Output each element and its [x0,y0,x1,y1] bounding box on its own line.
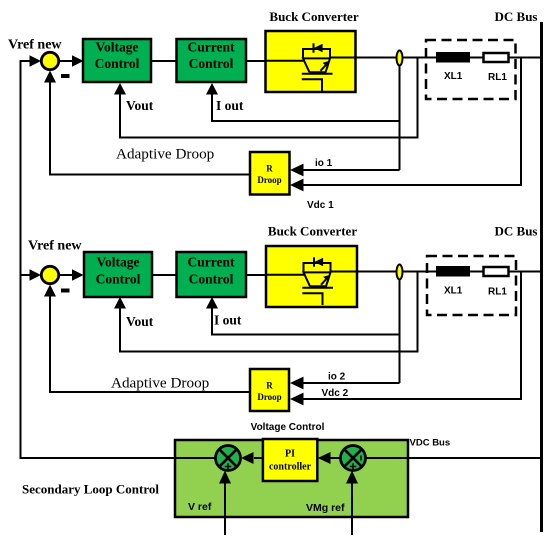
svg-text:Vdc 1: Vdc 1 [307,200,334,211]
summing junction circle 2 [41,266,58,283]
wire Current Control to Buck Converter loop2 [246,274,305,276]
block Voltage Control loop2 [84,252,152,297]
wire io tap from ellipse node down loop1 [399,58,401,170]
dashed line impedance box loop1 [426,40,516,99]
wire I out feedback loop2 [212,308,400,335]
block Buck Converter loop1 [266,31,356,92]
transistor IGBT symbol loop2 [267,257,357,305]
wire V ref arrow into multiplier 1 [224,483,226,535]
wire Buck output line to DC bus loop2 [330,271,541,273]
svg-text:PI: PI [285,449,295,460]
wire arrow into summing junction 2 [20,274,32,276]
svg-text:Secondary Loop Control: Secondary Loop Control [22,482,159,497]
block Current Control loop2 [177,252,247,297]
transistor IGBT symbol loop1 [266,43,356,91]
wire I out feedback loop1 [212,94,400,121]
svg-text:VDC Bus: VDC Bus [410,438,451,449]
block PI controller [263,439,317,481]
svg-text:VMg ref: VMg ref [306,502,345,514]
wire PI controller to multiplier 1 [254,457,263,459]
svg-text:io 2: io 2 [328,372,346,383]
svg-text:Voltage: Voltage [97,255,140,270]
wire Voltage Control to Current Control loop1 [151,60,177,62]
node ellipse junction loop2 [397,265,403,280]
wire summing junction 1 to Voltage Control [59,60,74,62]
svg-text:V ref: V ref [188,501,212,513]
wire Vdc 2 feedback into R Droop [302,272,521,400]
wire Buck output line to DC bus loop1 [330,57,541,59]
svg-text:Current: Current [188,40,235,55]
wire io tap from ellipse node down loop2 [399,272,401,383]
svg-text:I out: I out [216,98,244,113]
wire arrow into summing junction 1 [20,60,32,62]
svg-text:io 1: io 1 [315,158,333,169]
svg-text:DC Bus: DC Bus [495,224,538,239]
svg-text:Current: Current [188,255,235,270]
svg-text:I out: I out [214,313,242,328]
svg-text:Buck Converter: Buck Converter [269,9,358,24]
wire Vout feedback loop2 [120,272,418,352]
svg-text:XL1: XL1 [444,286,463,297]
svg-text:controller: controller [269,462,312,473]
svg-text:RL1: RL1 [488,287,507,298]
wire VMg ref arrow into multiplier 2 [351,483,353,535]
svg-text:Droop: Droop [257,392,281,402]
svg-text:Vref new: Vref new [28,239,82,254]
svg-text:Control: Control [96,272,141,287]
svg-text:Adaptive Droop: Adaptive Droop [111,375,209,392]
wire Voltage Control to Current Control loop2 [152,274,177,276]
svg-text:Vout: Vout [126,98,154,113]
wire Vout feedback loop1 [120,58,418,138]
minus sign loop1 [61,74,70,78]
svg-text:Voltage: Voltage [96,40,139,55]
svg-text:Droop: Droop [257,175,281,185]
summing junction circle 1 [41,52,58,69]
block R Droop loop1 [250,152,290,195]
minus sign loop2 [61,289,70,293]
inductor XL1 loop1 [436,52,470,63]
multiplier circle 1 [216,446,241,471]
block Current Control loop1 [177,39,247,82]
dashed line impedance box loop2 [427,256,516,315]
svg-text:Vref new: Vref new [8,38,62,53]
svg-text:R: R [266,164,273,174]
svg-text:Adaptive Droop: Adaptive Droop [116,146,214,163]
inductor XL1 loop2 [436,266,470,277]
multiplier circle 2 [341,446,366,471]
wire Current Control to Buck Converter loop1 [246,60,305,62]
svg-text:Buck Converter: Buck Converter [268,224,357,239]
wire io 2 into R Droop [302,382,400,384]
block secondary loop control green box [175,440,408,517]
wire left bus into multiplier 1 [21,457,217,459]
wire multiplier 2 to PI controller [330,457,341,459]
svg-text:Control: Control [189,272,234,287]
wire io 1 into R Droop [302,169,400,171]
wire R Droop output to summing junction 2 [50,296,250,392]
svg-text:R: R [266,381,273,391]
svg-text:Vdc 2: Vdc 2 [322,388,349,399]
svg-text:Control: Control [95,56,140,71]
wire left Vref bus vertical [20,60,22,459]
node ellipse junction loop1 [397,51,403,66]
node DC bus vertical line [540,22,543,532]
wire R Droop output to summing junction 1 [50,82,250,175]
svg-text:DC Bus: DC Bus [495,9,538,24]
svg-text:Voltage Control: Voltage Control [251,422,325,433]
block Buck Converter loop2 [266,246,357,307]
svg-text:Control: Control [189,56,234,71]
wire VDC Bus line from multiplier 2 to DC bus [365,457,541,459]
svg-text:RL1: RL1 [488,72,507,83]
resistor RL1 loop1 [484,53,509,62]
block Voltage Control loop1 [83,39,151,82]
svg-text:Vout: Vout [126,314,154,329]
block R Droop loop2 [250,369,289,411]
resistor RL1 loop2 [484,267,509,276]
wire summing junction 2 to Voltage Control [59,274,74,276]
svg-text:XL1: XL1 [444,71,463,82]
wire Vdc 1 feedback into R Droop [302,58,521,186]
